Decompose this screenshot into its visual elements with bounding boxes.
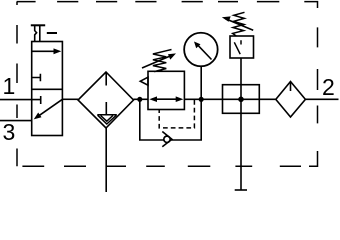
enclosure dashed border left xyxy=(16,2,18,167)
enclosure dashed border bottom-right corner xyxy=(309,151,318,166)
pressure regulator R1 double flow arrow xyxy=(152,98,181,100)
pressure regulator R1 body xyxy=(148,71,184,109)
enclosure dashed border top xyxy=(17,2,318,167)
pressure regulator R1 adjustment arrow xyxy=(142,55,173,68)
on-off valve V1 blocked port (actuated position) xyxy=(32,74,41,82)
enclosure dashed border bottom xyxy=(22,165,301,167)
pressure switch S1 adjustment arrow xyxy=(226,19,254,31)
port 1 line xyxy=(0,99,41,101)
distribution block B1 body xyxy=(223,85,260,114)
junction node at regulator inlet xyxy=(137,97,142,102)
wire: valve outlet to filter xyxy=(62,98,78,100)
filter F1 with water separator: diamond xyxy=(78,72,134,128)
pressure gauge G1 stem xyxy=(200,66,202,99)
lubricator L1 drip line xyxy=(290,82,292,92)
on-off valve V1 body xyxy=(32,42,63,136)
lubricator L1 diamond xyxy=(276,82,306,118)
port 3 line xyxy=(0,120,32,122)
filter F1 condensate separator xyxy=(97,115,117,124)
pressure regulator R1 relief nozzle xyxy=(164,136,170,142)
pressure regulator R1 relief exhaust loop xyxy=(140,99,201,140)
pressure regulator R1 pilot line (dashed) xyxy=(159,100,194,128)
on-off valve V1 flow path arrow (actuated position) xyxy=(32,50,59,52)
svg-text:1: 1 xyxy=(3,73,16,99)
on-off valve V1 position divider xyxy=(32,88,63,90)
pressure regulator R1 relief triangle xyxy=(140,77,148,85)
distribution block line: switch to exhaust xyxy=(240,58,242,190)
wire: filter to regulator xyxy=(134,98,149,100)
on-off valve V1 blocked port 1 (rest position) xyxy=(40,96,42,104)
pressure switch S1 body xyxy=(230,36,254,58)
filter F1 element line upper xyxy=(105,72,107,86)
port 2 outlet line xyxy=(305,98,338,100)
junction node in distribution block xyxy=(238,97,244,103)
pressure gauge G1 dial xyxy=(184,33,218,67)
pressure switch S1 contact xyxy=(234,40,241,54)
on-off valve V1 manual slide actuator xyxy=(31,25,57,41)
enclosure dashed border right xyxy=(317,27,319,123)
wire: regulator to lubricator main line xyxy=(184,98,275,100)
svg-text:3: 3 xyxy=(3,119,16,145)
filter F1 drain line xyxy=(105,128,107,192)
filter F1 element line lower xyxy=(105,102,107,115)
on-off valve V1 exhaust path arrow 2 to 3 (rest position) xyxy=(38,99,63,116)
pressure switch S1 spring xyxy=(233,12,245,36)
pressure regulator R1 spring xyxy=(153,50,172,72)
enclosure dashed border top-right corner xyxy=(304,2,317,8)
distribution block exhaust end bar xyxy=(235,189,247,191)
junction node at gauge stem xyxy=(199,97,204,102)
svg-text:2: 2 xyxy=(322,74,335,100)
pressure gauge G1 needle xyxy=(198,45,212,60)
